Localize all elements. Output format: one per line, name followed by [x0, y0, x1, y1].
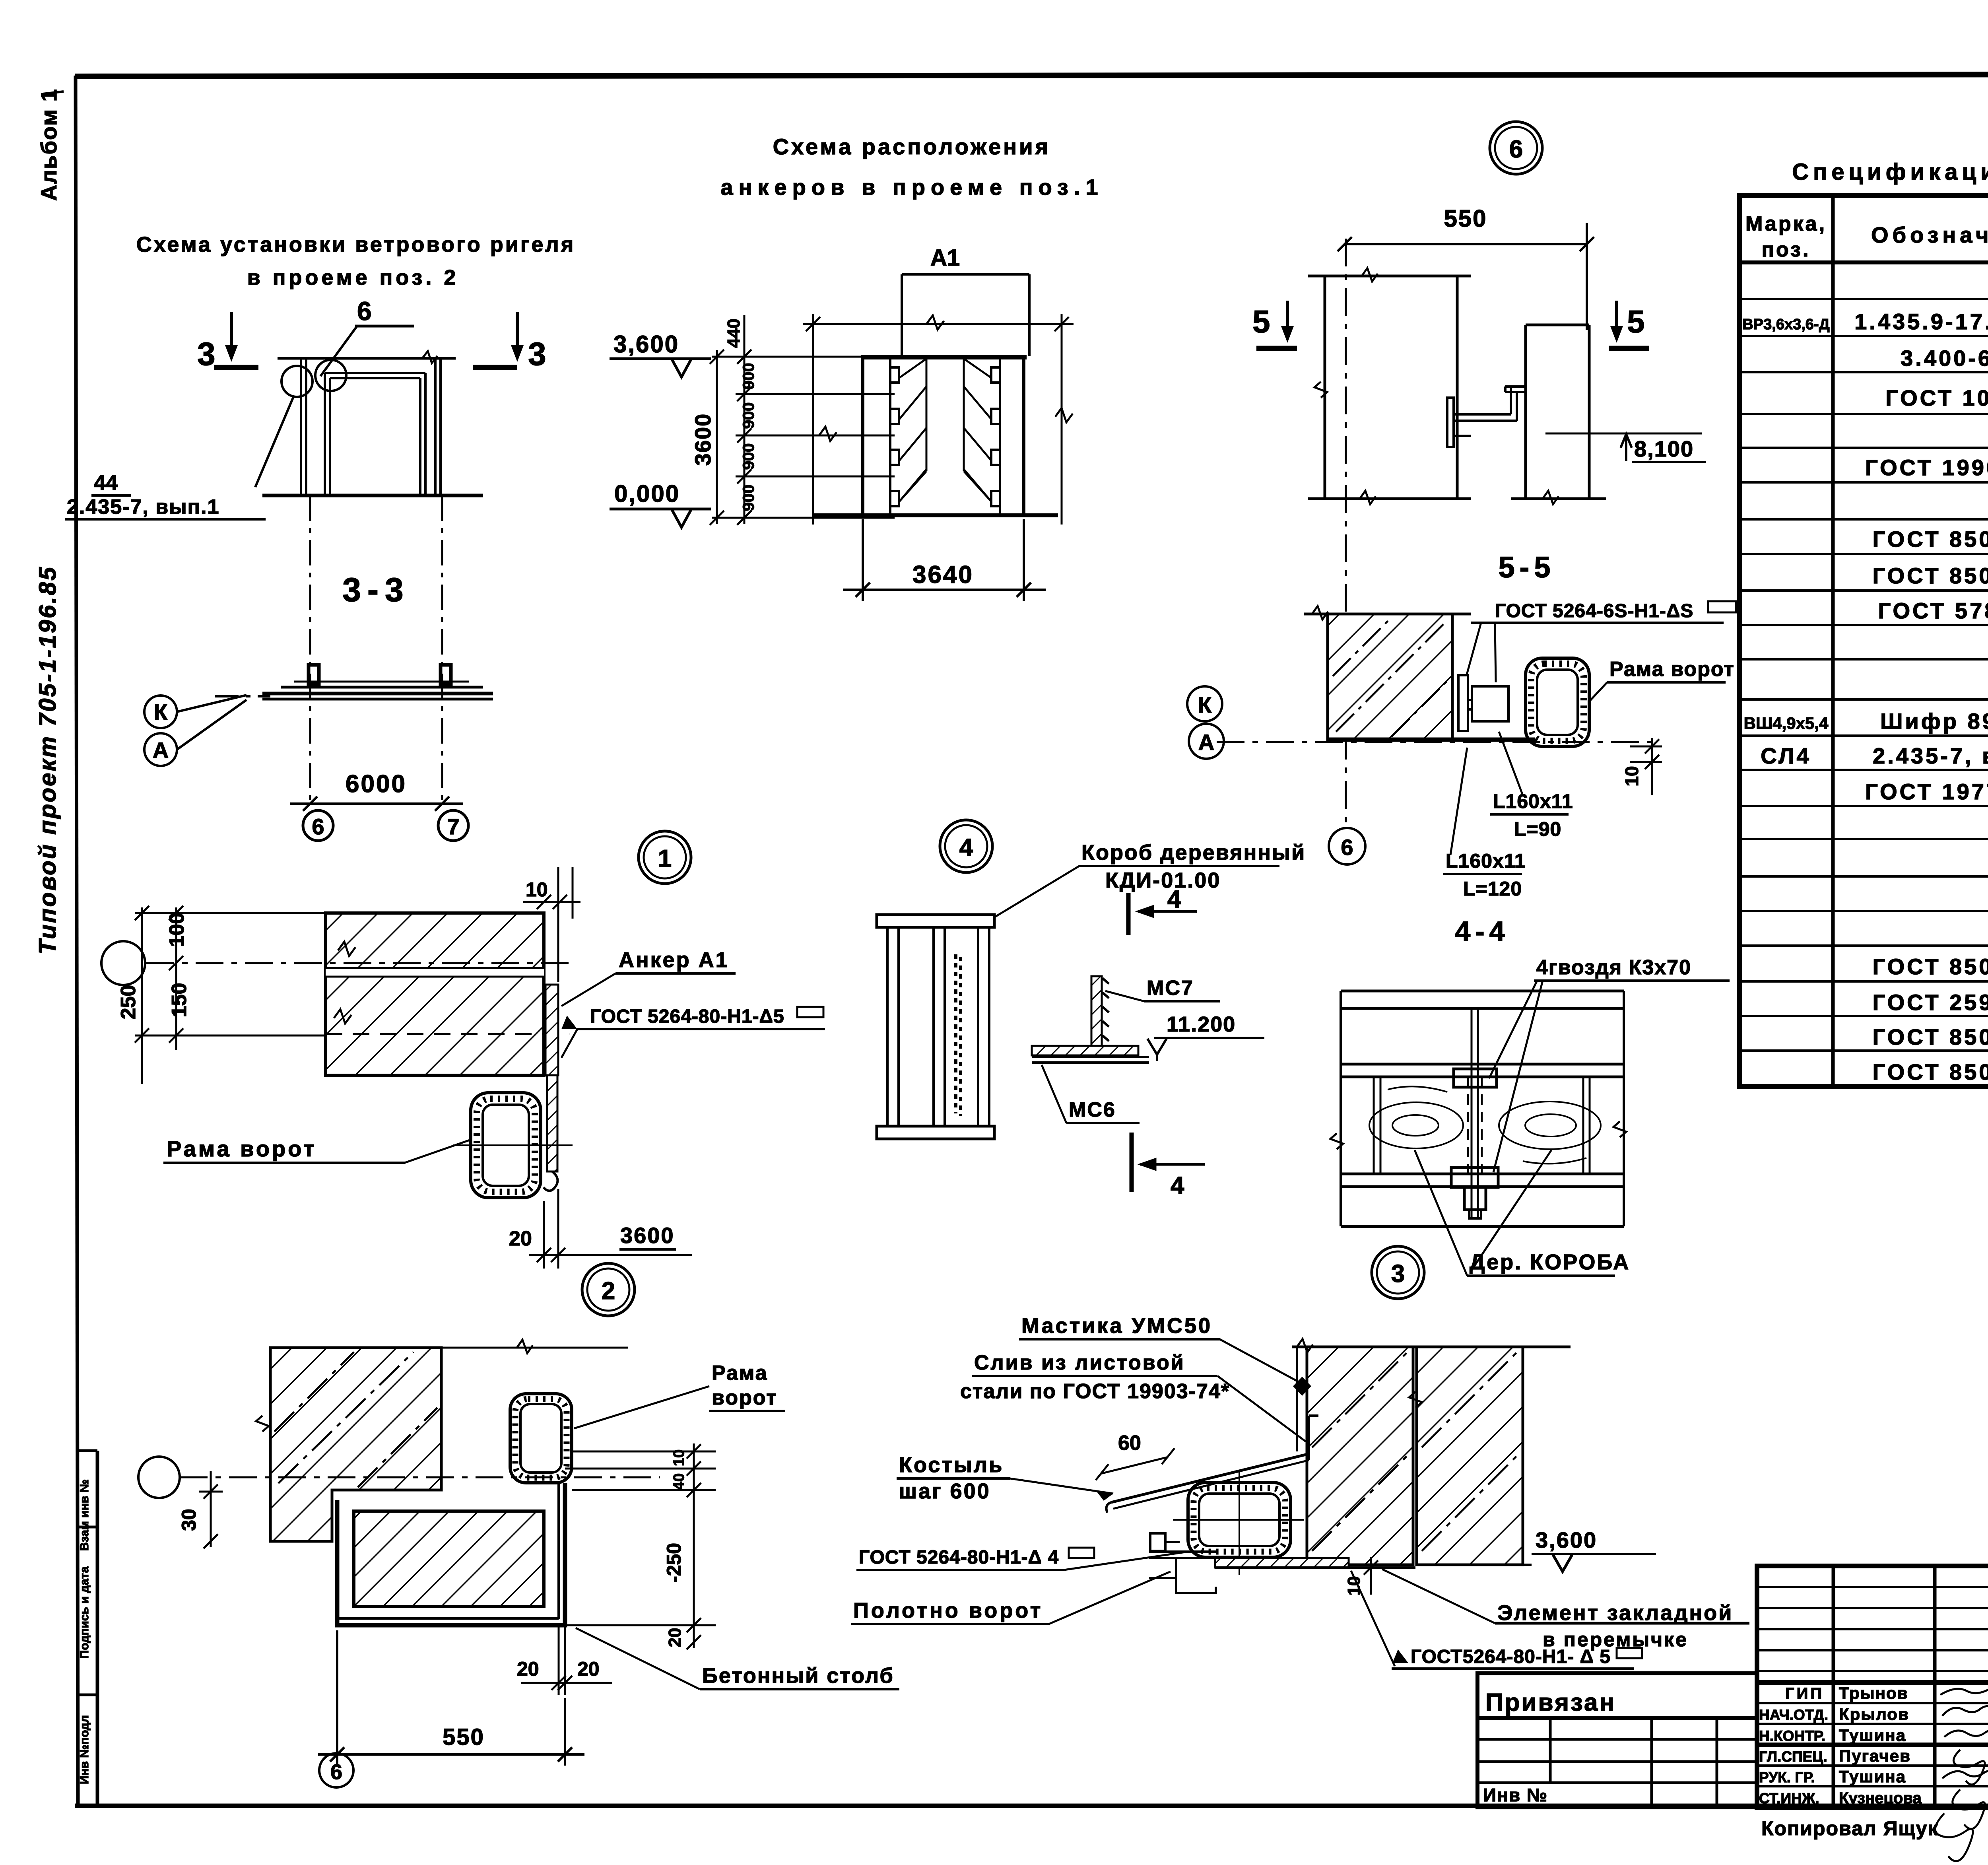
svg-text:ГОСТ 8509-72*: ГОСТ 8509-72* — [1873, 1024, 1988, 1049]
svg-text:60: 60 — [1118, 1432, 1141, 1455]
svg-text:Схема расположения: Схема расположения — [773, 134, 1050, 159]
svg-text:А: А — [1198, 730, 1214, 755]
left dim chain — [710, 315, 895, 525]
svg-text:Тушина: Тушина — [1839, 1767, 1906, 1786]
svg-text:6000: 6000 — [346, 770, 407, 798]
svg-text:3600: 3600 — [620, 1223, 675, 1248]
crane rail lines — [262, 665, 493, 699]
svg-text:3-3: 3-3 — [342, 571, 410, 608]
svg-text:Крылов: Крылов — [1839, 1705, 1909, 1723]
svg-text:900: 900 — [740, 443, 757, 470]
gate portal elevation — [255, 351, 483, 495]
axis bubble left — [101, 941, 145, 985]
svg-text:Привязан: Привязан — [1485, 1689, 1616, 1716]
svg-text:3.400-6/76: 3.400-6/76 — [1901, 346, 1988, 371]
svg-text:0,000: 0,000 — [614, 480, 680, 507]
signatures — [1940, 1687, 1988, 1829]
svg-text:11.200: 11.200 — [1167, 1012, 1236, 1036]
svg-text:анкеров в проеме поз.1: анкеров в проеме поз.1 — [720, 175, 1103, 200]
svg-text:А: А — [153, 738, 169, 763]
node balloon 6 bottom of 5-5 — [1329, 828, 1365, 865]
svg-text:20: 20 — [665, 1628, 685, 1647]
svg-text:КДИ-01.00: КДИ-01.00 — [1105, 868, 1221, 892]
svg-text:5: 5 — [1627, 304, 1645, 339]
left margin stamp strip — [76, 1451, 97, 1806]
svg-text:Марка,: Марка, — [1745, 212, 1827, 235]
plan walls top drawing — [1308, 268, 1606, 504]
svg-text:L=120: L=120 — [1463, 878, 1522, 900]
svg-text:Элемент закладной: Элемент закладной — [1497, 1601, 1733, 1625]
svg-text:ГОСТ 2590-71*: ГОСТ 2590-71* — [1873, 990, 1988, 1015]
svg-text:ГОСТ 5264-80-Н1-Δ5: ГОСТ 5264-80-Н1-Δ5 — [590, 1006, 784, 1027]
gate frame 5-5 — [1526, 658, 1589, 746]
svg-text:100: 100 — [165, 913, 188, 947]
svg-text:Рама ворот: Рама ворот — [167, 1136, 317, 1161]
dim 10 small — [1364, 1557, 1378, 1595]
anchor plates right — [991, 367, 1000, 383]
dims left of detail 1 — [135, 906, 326, 1084]
svg-text:Костыль: Костыль — [899, 1453, 1004, 1477]
section marks 5 — [1256, 301, 1297, 348]
svg-text:ГОСТ 5781-82: ГОСТ 5781-82 — [1878, 598, 1988, 623]
svg-text:Слив из листовой: Слив из листовой — [974, 1351, 1185, 1374]
svg-text:40: 40 — [671, 1473, 687, 1490]
svg-text:6: 6 — [312, 814, 324, 839]
mastika diamond — [1293, 1377, 1311, 1396]
svg-text:L=90: L=90 — [1514, 818, 1561, 840]
svg-text:Типовой проект 705-1-196.85: Типовой проект 705-1-196.85 — [34, 565, 61, 954]
hatched wall slabs — [1307, 1347, 1413, 1565]
svg-text:440: 440 — [724, 319, 744, 348]
svg-text:стали по ГОСТ 19903-74*: стали по ГОСТ 19903-74* — [960, 1380, 1230, 1403]
svg-text:Короб деревянный: Короб деревянный — [1081, 841, 1306, 865]
3-3 section elevation — [310, 495, 442, 800]
svg-text:МС6: МС6 — [1069, 1098, 1116, 1121]
svg-text:6: 6 — [1509, 136, 1523, 163]
svg-text:в проеме поз. 2: в проеме поз. 2 — [247, 266, 459, 289]
upper hatched wall corner — [270, 1348, 441, 1541]
svg-text:3: 3 — [528, 336, 546, 372]
svg-text:1: 1 — [658, 845, 672, 872]
wedge hatch left wall — [899, 359, 926, 501]
svg-text:Мастика УМС50: Мастика УМС50 — [1021, 1314, 1212, 1338]
svg-text:Взам инв №: Взам инв № — [78, 1479, 91, 1551]
gate frame bottom node — [1188, 1482, 1291, 1557]
svg-text:Копировал Ящук: Копировал Ящук — [1761, 1817, 1939, 1840]
right dim chain detail 2 — [565, 1443, 716, 1649]
svg-text:150: 150 — [168, 983, 191, 1018]
svg-text:Дер. КОРОБА: Дер. КОРОБА — [1470, 1250, 1630, 1274]
svg-text:4: 4 — [959, 834, 973, 861]
svg-text:ГОСТ 8509-72*: ГОСТ 8509-72* — [1873, 563, 1988, 588]
drip flashing — [1107, 1347, 1318, 1513]
svg-text:К: К — [1198, 692, 1212, 717]
svg-text:4: 4 — [1167, 886, 1181, 913]
svg-text:3,600: 3,600 — [613, 331, 679, 357]
svg-text:44: 44 — [94, 471, 118, 495]
svg-text:3600: 3600 — [690, 413, 715, 466]
concrete column with steel edging — [337, 1483, 565, 1625]
svg-text:550: 550 — [443, 1724, 485, 1750]
wood grain — [1369, 1102, 1463, 1148]
svg-text:НАЧ.ОТД.: НАЧ.ОТД. — [1759, 1707, 1828, 1723]
svg-text:ВШ4,9х5,4: ВШ4,9х5,4 — [1744, 714, 1829, 732]
axis circles K A — [144, 695, 270, 766]
svg-text:Инв №: Инв № — [1483, 1785, 1548, 1805]
svg-text:3640: 3640 — [912, 561, 974, 589]
gate frame detail 1 — [471, 1093, 541, 1198]
svg-text:4гвоздя К3х70: 4гвоздя К3х70 — [1536, 956, 1691, 979]
section mark 4 upper — [1128, 893, 1197, 935]
svg-text:Анкер А1: Анкер А1 — [619, 948, 729, 972]
svg-text:Альбом 1: Альбом 1 — [36, 88, 61, 201]
svg-text:2.435-7, вып.1: 2.435-7, вып.1 — [67, 495, 219, 519]
wooden box column — [877, 915, 994, 1139]
gate leaf profile — [1149, 1533, 1217, 1593]
wall section detail 1 — [326, 913, 544, 1075]
svg-text:20: 20 — [509, 1227, 532, 1250]
5-5 hatched wall — [1328, 614, 1452, 740]
svg-text:3: 3 — [1391, 1260, 1405, 1288]
embedded strip under frame — [1215, 1558, 1349, 1568]
angle assembly right of box — [1091, 976, 1102, 1048]
svg-text:550: 550 — [1444, 205, 1487, 232]
svg-text:Инв №подл: Инв №подл — [78, 1715, 91, 1784]
svg-text:10: 10 — [1621, 766, 1642, 786]
svg-text:5: 5 — [1252, 304, 1270, 339]
svg-text:Обозначение: Обозначение — [1871, 222, 1988, 247]
flanking tall extension lines + top dim — [803, 314, 1074, 525]
svg-text:30: 30 — [178, 1509, 200, 1531]
svg-text:ГОСТ5264-80-Н1- Δ 5: ГОСТ5264-80-Н1- Δ 5 — [1411, 1646, 1611, 1667]
svg-text:3: 3 — [197, 336, 215, 372]
svg-text:6: 6 — [330, 1760, 342, 1784]
svg-text:20: 20 — [577, 1658, 600, 1680]
section mark 4 lower — [1132, 1133, 1205, 1192]
svg-text:ГОСТ 103-76: ГОСТ 103-76 — [1885, 385, 1988, 410]
K A circles for 5-5 — [1187, 686, 1222, 721]
svg-text:РУК. ГР.: РУК. ГР. — [1759, 1769, 1815, 1785]
axis bubble and line — [138, 1457, 180, 1498]
svg-text:900: 900 — [740, 363, 757, 390]
svg-text:К: К — [154, 699, 168, 725]
svg-text:4: 4 — [1171, 1172, 1184, 1199]
vertical axis dash-dot through both — [1345, 239, 1347, 828]
svg-text:8,100: 8,100 — [1634, 436, 1694, 461]
svg-text:Шифр 898-73: Шифр 898-73 — [1880, 709, 1988, 734]
svg-text:1.435.9-17.3-3000: 1.435.9-17.3-3000 — [1854, 309, 1988, 334]
svg-text:7: 7 — [447, 814, 459, 839]
svg-text:ГИП: ГИП — [1785, 1685, 1824, 1702]
svg-text:L160х11: L160х11 — [1446, 850, 1526, 872]
staff rows — [1759, 1684, 1922, 1807]
node balloon 6 top — [1490, 122, 1542, 174]
svg-text:3,600: 3,600 — [1536, 1527, 1597, 1552]
svg-text:ГОСТ 5264-80-Н1-Δ 4: ГОСТ 5264-80-Н1-Δ 4 — [859, 1547, 1059, 1568]
wedge hatch right wall — [964, 359, 991, 501]
svg-text:Кузнецова: Кузнецова — [1839, 1789, 1922, 1807]
svg-text:250: 250 — [117, 985, 140, 1020]
frame assembly in 5-5 — [1458, 675, 1508, 731]
svg-text:ГОСТ 19772-74*: ГОСТ 19772-74* — [1865, 779, 1988, 804]
bolt rod — [1471, 1008, 1473, 1218]
dim 10 right of frame — [1630, 738, 1662, 795]
svg-text:СЛ4: СЛ4 — [1761, 743, 1811, 768]
svg-text:Бетонный столб: Бетонный столб — [702, 1664, 894, 1688]
svg-text:Рама ворот: Рама ворот — [1609, 658, 1735, 681]
svg-text:ВР3,6х3,6-Д: ВР3,6х3,6-Д — [1742, 316, 1829, 333]
svg-text:2: 2 — [602, 1277, 615, 1305]
node balloon 3 — [1372, 1246, 1424, 1299]
svg-text:Пугачев: Пугачев — [1839, 1746, 1911, 1765]
anchor strip — [546, 985, 558, 1075]
svg-text:ГОСТ 5264-6S-Н1-ΔS: ГОСТ 5264-6S-Н1-ΔS — [1495, 600, 1693, 622]
svg-text:L160х11: L160х11 — [1493, 790, 1573, 812]
dim 30 — [199, 1471, 223, 1548]
svg-text:ГОСТ 8509-72*: ГОСТ 8509-72* — [1873, 954, 1988, 979]
axis circles 6 7 — [303, 810, 333, 841]
svg-text:2.435-7, вып.1: 2.435-7, вып.1 — [1873, 743, 1988, 768]
svg-text:шаг 600: шаг 600 — [899, 1479, 991, 1503]
bracket in node 6 — [1447, 387, 1526, 447]
svg-text:4-4: 4-4 — [1455, 916, 1509, 947]
svg-text:поз.: поз. — [1762, 238, 1811, 261]
spec table header text — [1745, 212, 1988, 261]
svg-text:6: 6 — [1341, 835, 1353, 860]
spec table rows text — [1742, 272, 1988, 1084]
svg-text:10: 10 — [671, 1449, 687, 1466]
svg-text:900: 900 — [740, 402, 757, 429]
section mark 3 left — [214, 312, 258, 367]
svg-text:6: 6 — [357, 296, 372, 326]
svg-text:Схема установки ветрового риге: Схема установки ветрового ригеля — [136, 233, 575, 256]
svg-text:20: 20 — [517, 1658, 539, 1680]
svg-text:ГЛ.СПЕЦ.: ГЛ.СПЕЦ. — [1759, 1748, 1827, 1765]
svg-text:10: 10 — [526, 878, 548, 901]
svg-text:900: 900 — [740, 485, 757, 511]
svg-text:Спецификация заполнения проемо: Спецификация заполнения проемов ворот — [1792, 159, 1988, 185]
svg-text:ГОСТ 19903-74*: ГОСТ 19903-74* — [1865, 455, 1988, 480]
section mark 3 right — [473, 312, 524, 367]
svg-text:МС7: МС7 — [1147, 977, 1194, 1000]
svg-text:СТ.ИНЖ.: СТ.ИНЖ. — [1759, 1790, 1819, 1807]
svg-text:ГОСТ 8509-72*: ГОСТ 8509-72* — [1873, 1059, 1988, 1084]
svg-text:Н.КОНТР.: Н.КОНТР. — [1759, 1728, 1825, 1744]
anchor plates left — [890, 367, 899, 383]
svg-text:ворот: ворот — [712, 1386, 778, 1409]
svg-text:А1: А1 — [930, 245, 960, 271]
svg-text:Трынов: Трынов — [1839, 1684, 1908, 1702]
svg-text:Рама: Рама — [712, 1362, 768, 1385]
svg-text:ГОСТ 8509-72*: ГОСТ 8509-72* — [1873, 526, 1988, 552]
svg-text:-250: -250 — [663, 1543, 685, 1583]
spec table grid — [1739, 196, 1988, 1086]
svg-text:Подпись и дата: Подпись и дата — [78, 1566, 91, 1659]
svg-text:5-5: 5-5 — [1499, 551, 1555, 584]
detail 3 drawing — [1330, 991, 1626, 1226]
level 8,100 — [1545, 433, 1702, 435]
svg-text:Тушина: Тушина — [1839, 1726, 1906, 1745]
svg-text:Полотно ворот: Полотно ворот — [853, 1599, 1043, 1622]
gate frame detail 2 — [510, 1394, 572, 1483]
opening with walls — [813, 357, 1058, 515]
